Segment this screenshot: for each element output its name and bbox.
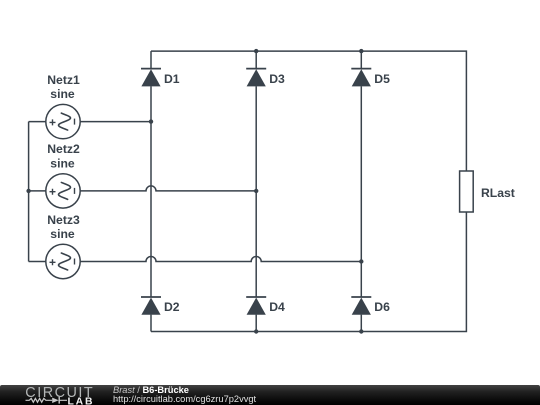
svg-text:D5: D5 (374, 72, 390, 86)
voltage source Netz2 circle (46, 174, 80, 208)
wire Netz3 right to D5 column with hops over D1 and D3 columns (80, 257, 361, 262)
wire left neutral rail (28, 122, 30, 262)
wire right rail below RLast and bottom rail to D2 (151, 212, 466, 332)
footer bar (0, 385, 540, 405)
CircuitLab logo (0, 385, 110, 405)
diode D6 cathode bar (351, 296, 371, 298)
wire Netz2 right to D3 column with hop over D1 column (80, 186, 256, 191)
wire top rail from D1 to right rail down to RLast (151, 51, 466, 171)
wire D5-D6 column middle (360, 86, 362, 297)
svg-text:Netz3: Netz3 (47, 213, 80, 227)
logo resistor zigzag and diode (26, 398, 68, 402)
wire D3-D4 column middle (255, 86, 257, 297)
wire Netz1 left stub (29, 121, 46, 123)
diode D4 triangle (247, 298, 266, 315)
junction dot left rail / Netz2 (26, 189, 30, 193)
junction dot bottom rail / D4 (254, 329, 258, 333)
voltage source Netz1 sine wave (59, 113, 71, 130)
voltage source Netz1 minus bar (74, 119, 76, 125)
resistor RLast body (460, 171, 474, 212)
voltage source Netz3 plus sign (50, 259, 56, 265)
wire D2 anode to bottom rail (150, 315, 152, 332)
junction dot Netz1 / D1 column (149, 119, 153, 123)
svg-text:Netz1: Netz1 (47, 73, 80, 87)
voltage source Netz3 circle (46, 244, 80, 278)
svg-text:sine: sine (50, 227, 75, 241)
wire Netz1 right to D1 column (80, 121, 151, 123)
svg-text:D6: D6 (374, 300, 390, 314)
logo diode bar (58, 397, 60, 404)
diode D1 triangle (141, 69, 160, 86)
voltage source Netz2 minus bar (74, 188, 76, 194)
wire D5-D6 column top stub (360, 51, 362, 69)
voltage source Netz3 sine wave (59, 253, 71, 270)
wire D4 anode to bottom rail (255, 315, 257, 332)
svg-text:D4: D4 (269, 300, 285, 314)
svg-text:RLast: RLast (481, 186, 515, 200)
wire D1-D2 column middle (150, 86, 152, 297)
voltage source Netz2 sine wave (59, 182, 71, 199)
svg-text:LAB: LAB (68, 396, 95, 405)
voltage source Netz2 plus sign (50, 189, 56, 195)
junction dot top rail / D3 (254, 49, 258, 53)
footer title line (113, 385, 189, 395)
diode D5 triangle (352, 69, 371, 86)
diode D4 cathode bar (246, 296, 266, 298)
wire D6 anode to bottom rail (360, 315, 362, 332)
diode D6 triangle (352, 298, 371, 315)
wire Netz3 left stub (29, 261, 46, 263)
voltage source Netz1 plus sign (50, 119, 56, 125)
voltage source Netz3 minus bar (74, 259, 76, 265)
diode D5 cathode bar (351, 68, 371, 70)
junction dot Netz3 / D5 column (359, 259, 363, 263)
junction dot bottom rail / D6 (359, 329, 363, 333)
junction dot top rail / D5 (359, 49, 363, 53)
wire Netz2 left stub (29, 190, 46, 192)
junction dot Netz2 / D3 column (254, 189, 258, 193)
svg-text:D2: D2 (164, 300, 180, 314)
diode D3 cathode bar (246, 68, 266, 70)
diode D1 cathode bar (141, 68, 161, 70)
wire D3-D4 column top stub (255, 51, 257, 69)
wire D1-D2 column top stub (150, 51, 152, 69)
svg-text:sine: sine (50, 87, 75, 101)
diode D2 cathode bar (141, 296, 161, 298)
logo diode triangle (52, 397, 59, 402)
svg-text:D1: D1 (164, 72, 180, 86)
diode D3 triangle (247, 69, 266, 86)
footer url line (113, 394, 256, 404)
svg-text:Netz2: Netz2 (47, 142, 80, 156)
diode D2 triangle (141, 298, 160, 315)
voltage source Netz1 circle (46, 104, 80, 138)
svg-text:sine: sine (50, 157, 75, 171)
svg-text:D3: D3 (269, 72, 285, 86)
